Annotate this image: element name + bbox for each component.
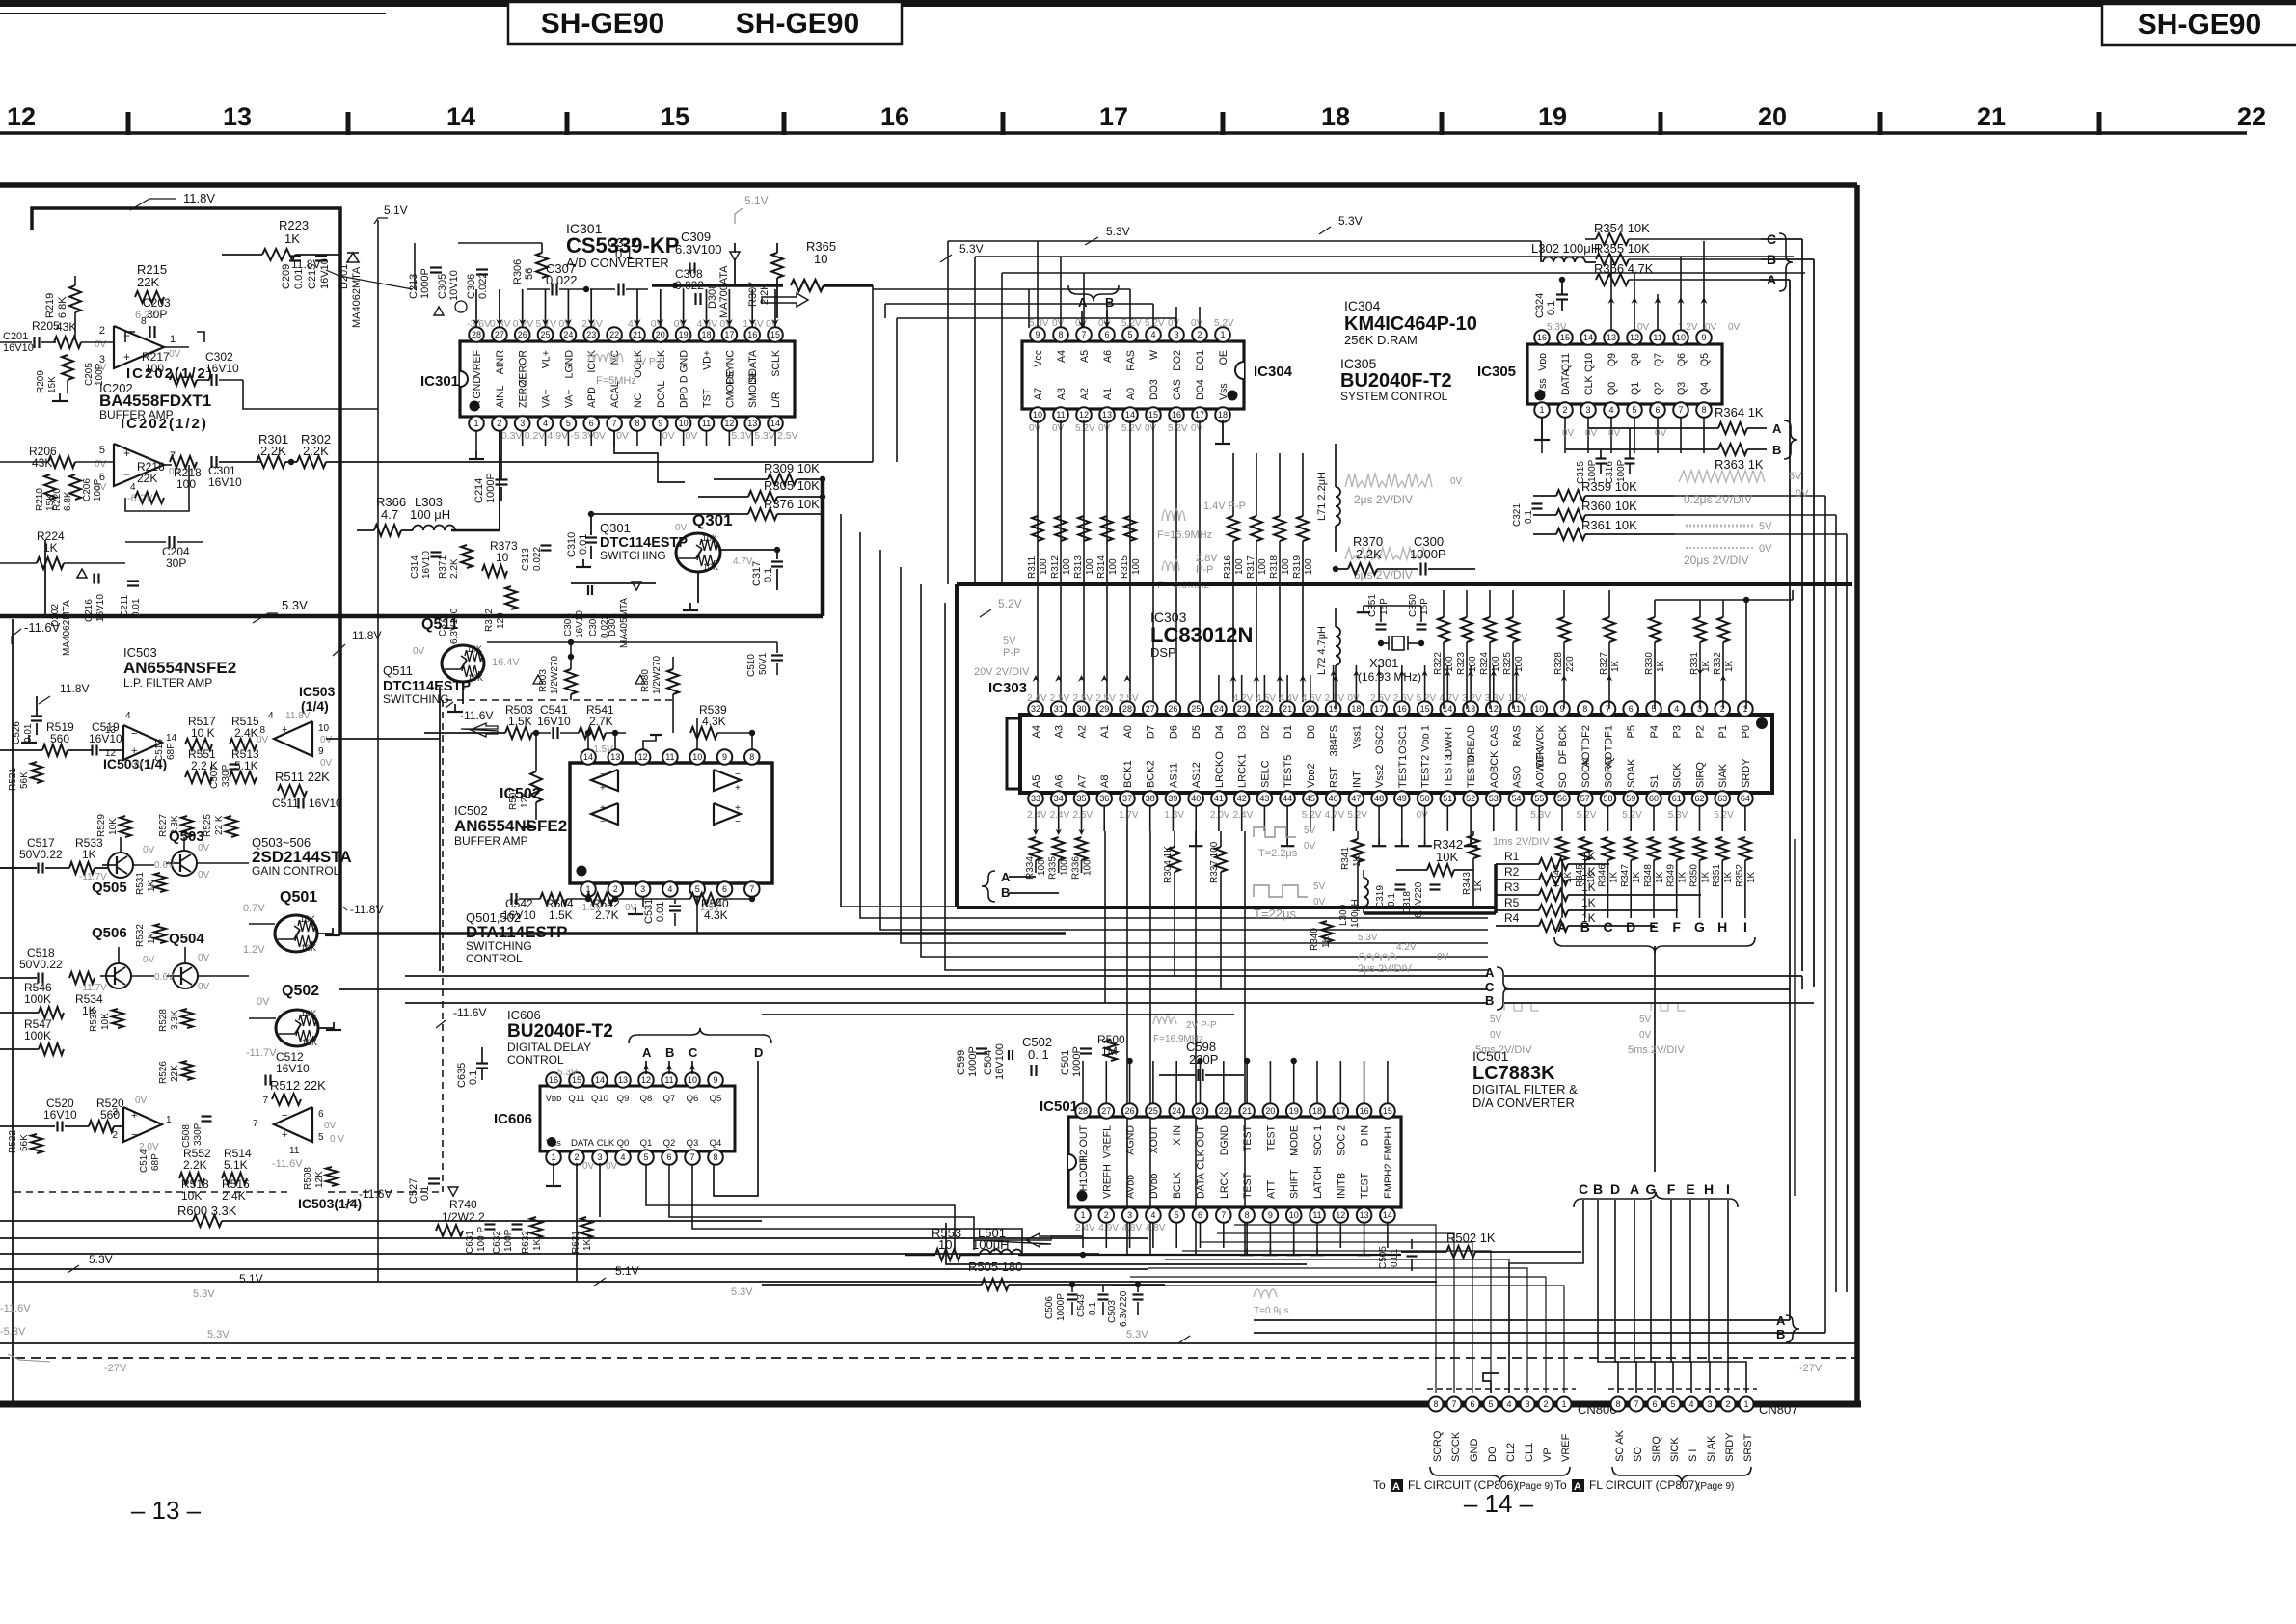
svg-text:8: 8 — [749, 752, 754, 762]
svg-text:MA4062MTA: MA4062MTA — [351, 266, 363, 328]
IC301 pin 25 — [545, 335, 547, 341]
svg-text:6: 6 — [722, 884, 727, 894]
svg-text:DCAL: DCAL — [656, 381, 667, 408]
svg-text:R521: R521 — [8, 768, 18, 791]
IC606 pin 8 — [715, 1151, 716, 1157]
svg-text:2.5V: 2.5V — [1073, 693, 1094, 704]
svg-text:0.022: 0.022 — [477, 272, 489, 299]
svg-text:24: 24 — [1214, 704, 1224, 714]
svg-text:0V: 0V — [198, 982, 210, 992]
svg-text:5V: 5V — [1789, 471, 1802, 482]
svg-text:16V10: 16V10 — [89, 732, 122, 745]
svg-text:VREFL: VREFL — [1101, 1125, 1113, 1158]
nested corner under IC501 — [946, 1223, 1307, 1264]
data bus verticals to IC303 — [1230, 675, 1237, 682]
svg-text:13: 13 — [747, 419, 757, 428]
svg-text:RST: RST — [1329, 767, 1340, 788]
svg-text:CLK: CLK — [597, 1138, 615, 1149]
svg-text:27: 27 — [1101, 1106, 1111, 1116]
svg-text:2.4V: 2.4V — [1075, 1223, 1095, 1233]
IC303 pin 14 — [1446, 709, 1448, 715]
svg-text:100: 100 — [1445, 656, 1455, 672]
IC304 pin 4 — [1152, 335, 1154, 341]
IC303 pin 55 — [1538, 793, 1540, 798]
svg-text:5.3V: 5.3V — [754, 430, 775, 442]
svg-text:100: 100 — [1234, 558, 1245, 575]
svg-text:To: To — [1554, 1478, 1567, 1492]
svg-text:0V: 0V — [257, 735, 269, 745]
IC305 top stubs with arrows — [1610, 294, 1612, 331]
grid ruler — [0, 131, 2247, 135]
svg-text:5.3V: 5.3V — [1106, 225, 1130, 238]
svg-text:100: 100 — [1304, 558, 1314, 575]
svg-text:A7: A7 — [1077, 775, 1089, 788]
IC301 pin 26 — [522, 335, 524, 341]
svg-text:2.6V: 2.6V — [1393, 693, 1414, 704]
svg-text:R343: R343 — [1462, 872, 1472, 895]
svg-text:R522: R522 — [8, 1130, 18, 1153]
wires IC502 bottom pins — [587, 896, 589, 899]
svg-text:0V: 0V — [662, 430, 675, 442]
svg-text:G: G — [1694, 919, 1705, 934]
svg-text:0.022: 0.022 — [546, 273, 578, 287]
svg-text:OSC2: OSC2 — [1374, 725, 1386, 754]
svg-text:Q5: Q5 — [1699, 353, 1711, 366]
IC606 body — [540, 1086, 735, 1151]
long verticals IC303 bottom to IC501 — [1126, 831, 1128, 1255]
svg-text:C507: C507 — [209, 766, 220, 789]
svg-text:2.4K: 2.4K — [234, 726, 258, 740]
svg-text:1K: 1K — [532, 1238, 543, 1251]
svg-text:R508: R508 — [303, 1167, 313, 1190]
svg-text:RAS: RAS — [1512, 725, 1524, 747]
svg-text:6.3V220: 6.3V220 — [1119, 1290, 1129, 1327]
svg-text:0.2V: 0.2V — [525, 430, 546, 442]
svg-text:C313: C313 — [521, 548, 531, 571]
svg-text:C511: C511 — [272, 797, 299, 810]
svg-text:100: 100 — [1514, 656, 1525, 672]
svg-text:IC606: IC606 — [494, 1111, 532, 1127]
svg-text:0V: 0V — [324, 1121, 337, 1131]
CN807 pin 8 — [1611, 1397, 1626, 1412]
svg-text:R220: R220 — [52, 488, 63, 511]
IC303 pin 26 — [1172, 709, 1174, 715]
svg-text:P1: P1 — [1717, 725, 1729, 738]
svg-text:C599: C599 — [956, 1050, 967, 1075]
svg-text:CL1: CL1 — [1524, 1443, 1535, 1462]
svg-text:R1: R1 — [1504, 850, 1520, 863]
IC304 pin18 Vss ground — [1222, 420, 1224, 436]
IC303 pin 41 — [1218, 793, 1220, 798]
IC501 pin 3 — [1129, 1207, 1131, 1215]
svg-text:0V: 0V — [131, 760, 144, 771]
svg-text:AOBCK: AOBCK — [1489, 750, 1500, 788]
svg-text:VREF: VREF — [1560, 1433, 1572, 1462]
svg-text:0V: 0V — [1313, 897, 1326, 907]
svg-text:A5: A5 — [1031, 775, 1042, 788]
IC303 pin 31 — [1058, 709, 1060, 715]
IC501 pin 19 — [1293, 1111, 1295, 1117]
svg-text:A8: A8 — [1099, 775, 1111, 788]
svg-text:4.5V: 4.5V — [1302, 693, 1322, 704]
svg-text:5.1V: 5.1V — [744, 194, 769, 207]
IC303 pin 10 — [1538, 709, 1540, 715]
IC606 pin 2 — [576, 1151, 578, 1157]
svg-text:IC502: IC502 — [454, 803, 488, 818]
svg-text:R359 10K: R359 10K — [1581, 479, 1637, 494]
5.1V bus line — [0, 1281, 1437, 1283]
svg-text:8: 8 — [635, 419, 639, 428]
svg-text:59: 59 — [1626, 794, 1635, 803]
svg-text:– 14 –: – 14 – — [1464, 1489, 1534, 1518]
svg-text:20: 20 — [1306, 704, 1315, 714]
svg-text:R314: R314 — [1096, 555, 1107, 579]
IC301 pin 23 — [590, 335, 592, 341]
svg-text:Q8: Q8 — [640, 1094, 653, 1104]
svg-text:8: 8 — [1058, 330, 1063, 339]
svg-text:9: 9 — [318, 746, 324, 757]
svg-text:9: 9 — [1701, 333, 1706, 342]
svg-text:C303: C303 — [563, 613, 574, 636]
svg-text:Vss1: Vss1 — [1351, 725, 1363, 748]
svg-text:18: 18 — [1321, 102, 1350, 131]
svg-text:LRCK: LRCK — [1219, 1172, 1230, 1199]
DSP thick enclosure box — [957, 582, 1852, 586]
svg-text:VREF: VREF — [472, 349, 483, 377]
svg-text:C201: C201 — [3, 331, 28, 342]
grounds IC501 bottom — [1246, 1248, 1248, 1255]
svg-text:X IN: X IN — [1172, 1125, 1183, 1146]
top page border bar — [0, 0, 2296, 7]
IC301 pin 13 — [751, 417, 753, 423]
svg-text:18: 18 — [1218, 410, 1228, 420]
brace under A-I — [1554, 937, 1755, 953]
IC502 pin 5 — [689, 881, 705, 897]
CN806 pin 2 — [1539, 1397, 1553, 1412]
svg-text:5.3V: 5.3V — [1530, 810, 1551, 821]
IC303 pin 30 — [1081, 709, 1083, 715]
svg-text:R351: R351 — [1712, 864, 1722, 887]
svg-text:R330: R330 — [1644, 652, 1655, 675]
svg-text:Q8: Q8 — [1630, 353, 1641, 366]
IC301 pin stubs upward wires — [475, 289, 477, 328]
IC303 pin 52 — [1470, 793, 1472, 798]
CN807 pin 7 — [1630, 1397, 1644, 1412]
svg-text:12: 12 — [1079, 410, 1089, 420]
svg-text:TEST: TEST — [1265, 1124, 1277, 1151]
svg-text:Q3: Q3 — [687, 1138, 699, 1149]
svg-text:28: 28 — [1078, 1106, 1088, 1116]
svg-text:R315: R315 — [1120, 555, 1130, 579]
IC606 pin1 ground — [553, 1163, 554, 1178]
-27V dashed bus — [0, 1357, 1857, 1359]
svg-text:30P: 30P — [166, 556, 186, 570]
svg-text:0V: 0V — [1796, 488, 1809, 500]
svg-text:11: 11 — [1653, 333, 1661, 342]
IC303 pin 6 — [1630, 709, 1632, 715]
svg-text:22K: 22K — [137, 275, 159, 289]
svg-text:H: H — [1717, 919, 1727, 934]
svg-text:1K: 1K — [1723, 871, 1734, 883]
svg-text:S1: S1 — [1649, 775, 1661, 788]
svg-text:0V: 0V — [1450, 476, 1463, 487]
svg-text:+: + — [600, 783, 606, 794]
svg-text:5.3V: 5.3V — [193, 1288, 215, 1300]
svg-text:R349: R349 — [1666, 864, 1677, 887]
IC606 pin 3 — [599, 1151, 601, 1157]
svg-text:19: 19 — [679, 330, 689, 339]
svg-text:Vss: Vss — [1218, 383, 1229, 400]
svg-text:2.7K: 2.7K — [589, 715, 613, 728]
svg-text:Q511: Q511 — [421, 616, 458, 633]
svg-text:Q9: Q9 — [617, 1094, 630, 1104]
svg-text:50: 50 — [1420, 794, 1430, 803]
svg-text:3: 3 — [1127, 1210, 1132, 1220]
IC304 pin 10 — [1037, 409, 1039, 415]
svg-text:LC7883K: LC7883K — [1472, 1063, 1555, 1084]
svg-text:D1: D1 — [1283, 725, 1294, 739]
IC501 pin 22 — [1223, 1111, 1225, 1117]
svg-text:16V10: 16V10 — [319, 258, 331, 289]
svg-text:6: 6 — [1198, 1210, 1202, 1220]
svg-text:IC503(1/4): IC503(1/4) — [298, 1196, 362, 1211]
IC303 pin 54 — [1516, 793, 1518, 798]
svg-text:−: − — [600, 770, 606, 780]
svg-text:0V: 0V — [1052, 318, 1065, 329]
svg-text:11: 11 — [289, 1146, 300, 1156]
IC303 pin 22 — [1263, 709, 1265, 715]
IC303 pin 1 — [1744, 709, 1746, 715]
svg-text:4.4V: 4.4V — [1279, 693, 1299, 704]
svg-text:R526: R526 — [158, 1061, 169, 1084]
IC502 pin 13 — [608, 749, 624, 765]
svg-text:5: 5 — [1632, 405, 1636, 415]
svg-text:0.1: 0.1 — [615, 247, 633, 261]
svg-text:37: 37 — [1122, 794, 1132, 803]
svg-text:R223: R223 — [279, 218, 309, 232]
svg-text:C213: C213 — [408, 274, 419, 299]
svg-text:11.8V: 11.8V — [183, 191, 215, 205]
IC305 pin 8 — [1703, 404, 1705, 410]
svg-text:DSP: DSP — [1150, 645, 1176, 660]
svg-text:SH-GE90: SH-GE90 — [2138, 9, 2261, 41]
svg-text:CONTROL: CONTROL — [466, 952, 523, 965]
svg-text:R530: R530 — [89, 1009, 99, 1032]
svg-text:A: A — [1392, 1481, 1400, 1493]
svg-text:1K: 1K — [582, 1238, 593, 1251]
svg-text:100P: 100P — [93, 478, 103, 501]
svg-text:A0: A0 — [1122, 725, 1134, 738]
svg-text:SHIFT: SHIFT — [1289, 1169, 1301, 1199]
svg-text:A7: A7 — [1033, 388, 1044, 400]
svg-text:6: 6 — [1104, 330, 1109, 339]
IC304 pin 1 — [1222, 335, 1224, 341]
svg-text:R305 10K: R305 10K — [764, 478, 820, 493]
svg-text:INITB: INITB — [1336, 1173, 1347, 1199]
svg-text:Vcc: Vcc — [1033, 349, 1044, 366]
svg-text:SICK: SICK — [1669, 1437, 1681, 1462]
svg-text:L/R: L/R — [770, 392, 782, 408]
IC IC501 body — [1068, 1117, 1401, 1207]
lines from IC502 out — [326, 738, 440, 740]
IC501 pin 28 — [1082, 1111, 1084, 1117]
svg-text:1K: 1K — [1609, 871, 1620, 883]
svg-text:−: − — [123, 468, 130, 481]
svg-text:C317: C317 — [751, 561, 763, 586]
svg-text:50V1: 50V1 — [758, 652, 769, 675]
svg-text:0.1: 0.1 — [419, 1186, 431, 1201]
svg-text:Q501: Q501 — [280, 889, 317, 906]
IC501 pin 1 — [1082, 1207, 1084, 1215]
IC606 pin 4 — [622, 1151, 624, 1157]
svg-text:R319: R319 — [1292, 555, 1303, 579]
svg-text:10K: 10K — [467, 644, 482, 654]
svg-text:21: 21 — [1283, 704, 1292, 714]
svg-text:C501: C501 — [1060, 1050, 1071, 1075]
svg-text:38: 38 — [1146, 794, 1155, 803]
svg-text:IC202(1/2): IC202(1/2) — [121, 416, 208, 432]
svg-text:10: 10 — [1289, 1210, 1299, 1220]
svg-text:KM4IC464P-10: KM4IC464P-10 — [1344, 313, 1477, 335]
svg-text:5V: 5V — [1313, 881, 1326, 892]
svg-text:2: 2 — [1543, 1399, 1548, 1409]
svg-text:16V10: 16V10 — [3, 342, 34, 354]
svg-text:4: 4 — [125, 711, 131, 721]
svg-text:5.2V: 5.2V — [1622, 810, 1642, 821]
svg-text:2V P-P: 2V P-P — [1186, 1020, 1217, 1031]
svg-text:3: 3 — [640, 884, 645, 894]
svg-text:P-P: P-P — [1196, 564, 1213, 576]
svg-text:CH1OUT: CH1OUT — [1078, 1156, 1090, 1199]
svg-text:FL CIRCUIT (CP806): FL CIRCUIT (CP806) — [1408, 1478, 1517, 1492]
svg-text:56: 56 — [1557, 794, 1567, 803]
svg-text:Vᴅᴅ: Vᴅᴅ — [1537, 353, 1549, 371]
svg-text:−: − — [282, 1110, 287, 1122]
svg-text:BUFFER AMP: BUFFER AMP — [454, 834, 528, 848]
IC502 pin 2 — [608, 881, 624, 897]
svg-text:4: 4 — [543, 419, 548, 428]
svg-text:LATCH: LATCH — [1312, 1166, 1324, 1199]
svg-text:7: 7 — [253, 1119, 258, 1129]
op-amp IC202 1/2 upper — [114, 326, 164, 368]
svg-text:100 μH: 100 μH — [410, 507, 450, 522]
svg-text:1000P: 1000P — [967, 1046, 979, 1077]
svg-text:SRDY: SRDY — [1724, 1432, 1736, 1462]
svg-text:3: 3 — [1707, 1399, 1712, 1409]
wire op1 out to right — [197, 379, 209, 381]
svg-text:F=16.9MHz: F=16.9MHz — [1153, 1034, 1203, 1044]
svg-text:D/A CONVERTER: D/A CONVERTER — [1472, 1096, 1575, 1110]
svg-text:4.7: 4.7 — [381, 507, 398, 522]
svg-text:22K: 22K — [137, 472, 157, 485]
IC303 pin 24 — [1218, 709, 1220, 715]
svg-text:36: 36 — [1099, 794, 1109, 803]
svg-text:F: F — [1667, 1181, 1676, 1197]
svg-text:D301: D301 — [608, 613, 618, 636]
svg-text:R348: R348 — [1643, 864, 1654, 887]
svg-text:17: 17 — [724, 330, 734, 339]
IC606 pin 12 — [645, 1080, 647, 1086]
svg-text:DATA: DATA — [571, 1138, 595, 1149]
svg-text:2: 2 — [497, 419, 501, 428]
IC301 pin 15 — [774, 335, 776, 341]
svg-text:CLK: CLK — [1583, 375, 1595, 395]
IC501 pin 27 — [1105, 1111, 1107, 1117]
svg-text:100P: 100P — [503, 1229, 514, 1252]
IC501 pin 24 — [1175, 1111, 1177, 1117]
svg-text:ASO: ASO — [1512, 765, 1524, 788]
svg-text:16V10: 16V10 — [276, 1062, 310, 1075]
svg-text:AOWCK: AOWCK — [1534, 747, 1546, 788]
svg-text:330P: 330P — [221, 764, 231, 787]
svg-text:43K: 43K — [56, 320, 76, 334]
svg-text:4.8V: 4.8V — [1122, 1223, 1143, 1233]
svg-text:5.2V: 5.2V — [1714, 810, 1734, 821]
svg-text:DATA: DATA — [1560, 368, 1572, 395]
svg-text:SORQ: SORQ — [1604, 756, 1615, 788]
IC303 pin 15 — [1424, 709, 1426, 715]
svg-text:+: + — [735, 803, 741, 814]
svg-text:R317: R317 — [1246, 555, 1256, 579]
svg-text:6: 6 — [1629, 704, 1634, 714]
svg-text:11: 11 — [702, 419, 711, 428]
svg-text:10: 10 — [679, 419, 689, 428]
svg-text:R354 10K: R354 10K — [1594, 221, 1650, 235]
svg-text:2μs 2V/DIV: 2μs 2V/DIV — [1358, 963, 1413, 975]
svg-text:21: 21 — [1242, 1106, 1252, 1116]
svg-text:16: 16 — [1537, 333, 1547, 342]
CN806 pin 8 — [1429, 1397, 1444, 1412]
svg-text:5.2V: 5.2V — [1214, 318, 1234, 329]
svg-text:Q2: Q2 — [663, 1138, 676, 1149]
title box SH-GE90 left — [508, 2, 902, 44]
svg-text:4.7V: 4.7V — [733, 556, 753, 567]
svg-text:17: 17 — [1195, 410, 1204, 420]
svg-text:25: 25 — [1148, 1106, 1158, 1116]
svg-text:DO4: DO4 — [1195, 379, 1206, 400]
svg-text:7: 7 — [1678, 405, 1683, 415]
svg-text:100μH: 100μH — [1350, 899, 1361, 928]
svg-text:4.5V: 4.5V — [1256, 693, 1276, 704]
svg-text:0V: 0V — [413, 646, 425, 657]
svg-text:4.7V: 4.7V — [1325, 810, 1345, 821]
svg-text:5.2V: 5.2V — [1577, 810, 1597, 821]
address bus IC304 to IC303 — [1037, 420, 1039, 702]
svg-text:DVᴅᴅ: DVᴅᴅ — [1148, 1173, 1160, 1199]
dashed block border — [14, 1191, 289, 1193]
wire from Q511 to right — [487, 641, 777, 643]
svg-text:A3: A3 — [1056, 388, 1067, 400]
waveform ghost 16.9MHz — [1162, 509, 1185, 521]
wires letters row2 down to connectors — [1509, 1200, 1583, 1393]
svg-text:13: 13 — [1607, 333, 1616, 342]
svg-text:F=16.9MHz: F=16.9MHz — [1157, 529, 1212, 541]
CN806 pin 7 — [1447, 1397, 1462, 1412]
IC301 pin 12 — [728, 417, 730, 423]
svg-text:17: 17 — [1374, 704, 1384, 714]
svg-text:D: D — [1610, 1181, 1620, 1197]
CN806 wires up from pins — [1234, 1225, 1436, 1393]
IC606 pin 5 — [645, 1151, 647, 1157]
svg-text:7: 7 — [749, 884, 754, 894]
svg-text:2: 2 — [1197, 330, 1202, 339]
IC303 pin 37 — [1126, 793, 1128, 798]
IC303 pin 64 — [1744, 793, 1746, 798]
svg-text:D7: D7 — [1146, 725, 1157, 739]
svg-text:24: 24 — [1172, 1106, 1181, 1116]
IC303 pin 21 — [1286, 709, 1288, 715]
svg-text:1.4V P-P: 1.4V P-P — [1203, 501, 1246, 512]
